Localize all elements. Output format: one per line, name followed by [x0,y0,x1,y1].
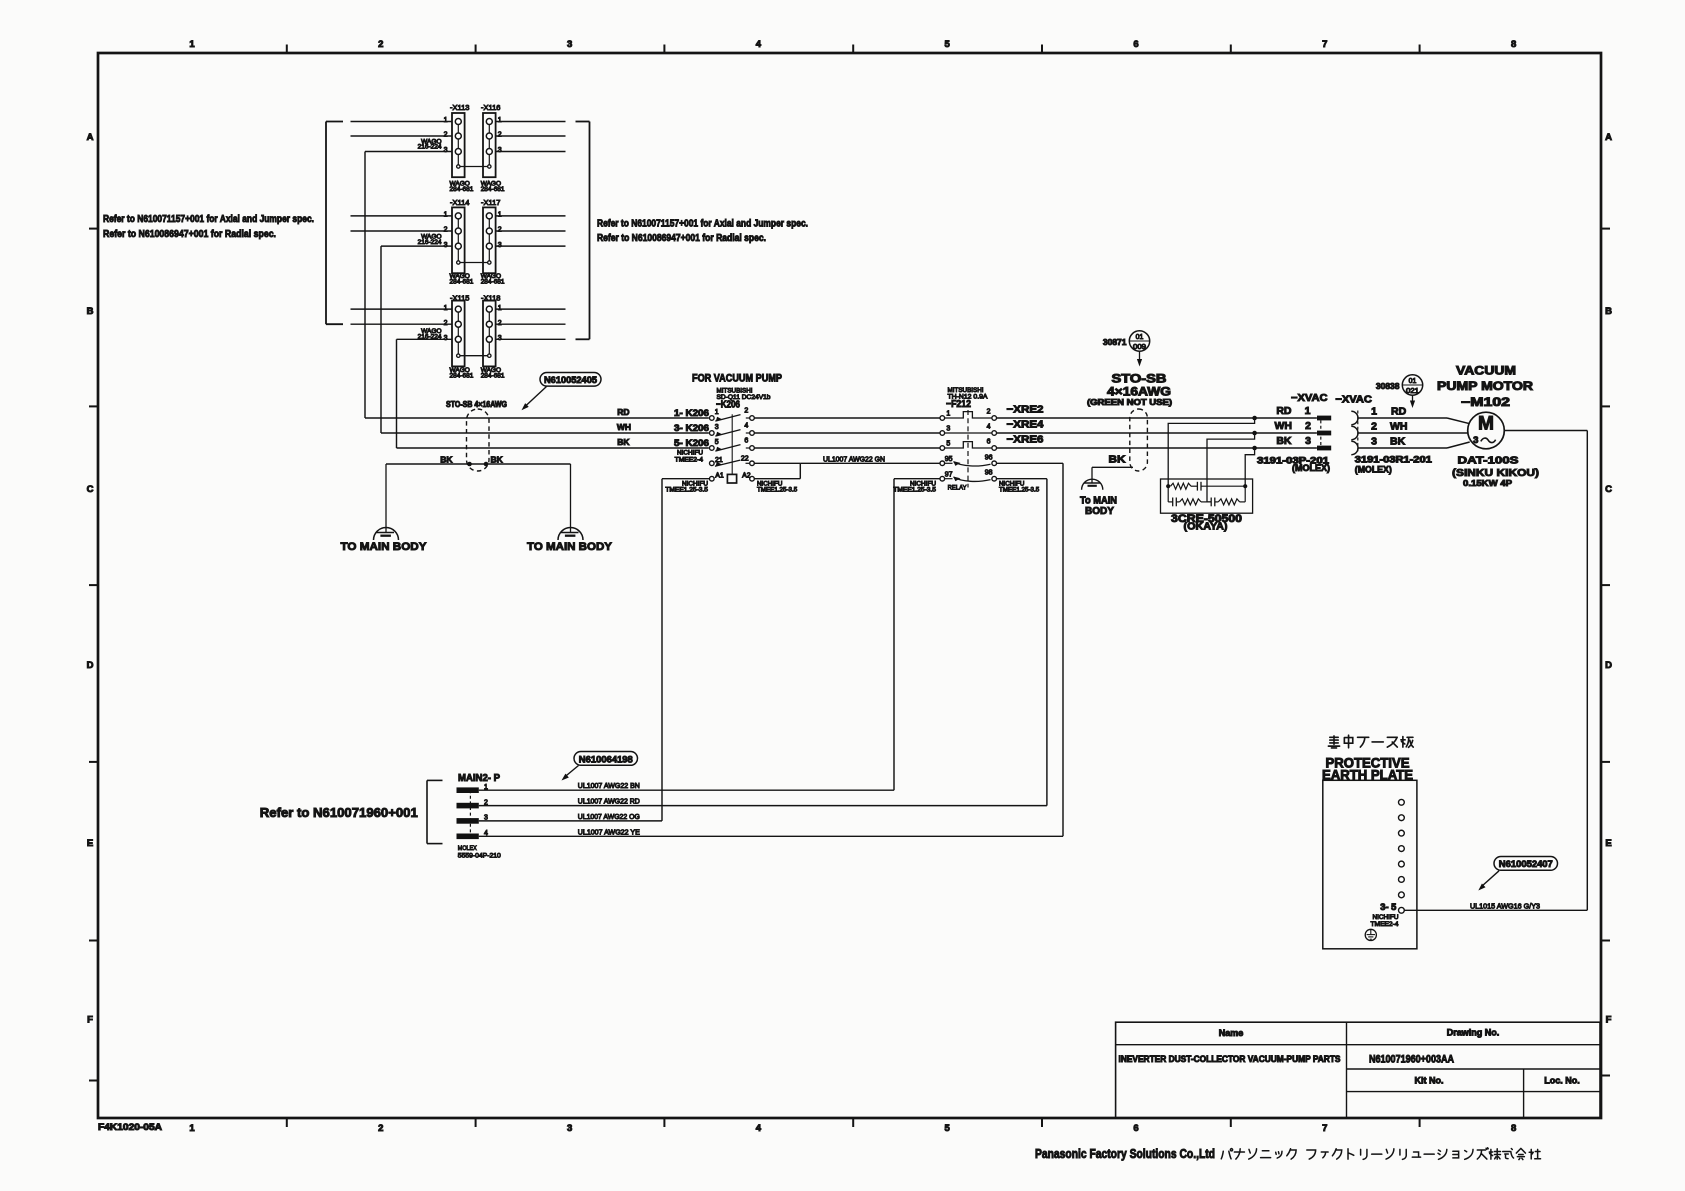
svg-text:-X113: -X113 [450,103,469,112]
svg-text:(GREEN NOT USE): (GREEN NOT USE) [1087,398,1172,407]
svg-text:284-681: 284-681 [450,278,474,285]
svg-text:1: 1 [715,409,719,416]
svg-text:UL1007 AWG22 OG: UL1007 AWG22 OG [578,812,640,821]
svg-text:NICHIFU: NICHIFU [1373,914,1399,921]
svg-text:2: 2 [444,132,448,139]
svg-text:2: 2 [444,320,448,327]
svg-text:284-681: 284-681 [481,278,505,285]
svg-text:216-224: 216-224 [418,239,442,246]
svg-text:BK: BK [617,437,630,447]
svg-text:Loc. No.: Loc. No. [1544,1076,1580,1086]
svg-text:4: 4 [756,39,762,50]
svg-text:6: 6 [987,439,991,446]
svg-text:284-681: 284-681 [481,372,505,379]
svg-text:2: 2 [987,409,991,416]
svg-text:3191-03R1-201: 3191-03R1-201 [1355,454,1432,464]
svg-text:N610052405: N610052405 [544,375,598,386]
svg-text:D: D [1605,660,1612,671]
svg-text:3: 3 [946,426,950,433]
svg-text:3: 3 [715,424,719,431]
svg-text:−F212: −F212 [946,399,971,410]
svg-text:21: 21 [715,457,723,464]
svg-text:RELAY: RELAY [948,485,967,492]
svg-text:5559-04P-210: 5559-04P-210 [458,852,501,859]
svg-text:N610064198: N610064198 [579,754,634,765]
svg-text:284-681: 284-681 [481,186,505,193]
svg-text:A: A [87,132,94,143]
svg-text:−M102: −M102 [1461,397,1510,409]
svg-text:WH: WH [1275,420,1293,432]
svg-text:-X118: -X118 [481,294,500,303]
svg-text:3: 3 [1371,435,1377,447]
svg-text:M: M [1478,414,1494,435]
svg-text:UL1007 AWG22 BN: UL1007 AWG22 BN [578,781,640,790]
svg-text:WH: WH [617,422,631,432]
svg-text:C: C [1605,484,1612,495]
svg-text:1: 1 [498,212,502,219]
svg-text:8: 8 [1511,39,1516,50]
svg-text:3: 3 [567,1123,572,1134]
svg-text:RD: RD [617,407,629,417]
svg-text:6: 6 [1133,1123,1138,1134]
svg-text:BODY: BODY [1085,506,1114,517]
svg-text:−XVAC: −XVAC [1335,394,1372,405]
svg-text:1: 1 [498,117,502,124]
svg-text:1: 1 [1305,405,1311,417]
svg-text:5: 5 [715,439,719,446]
svg-text:-X114: -X114 [450,198,469,207]
svg-text:3: 3 [567,39,572,50]
svg-text:96: 96 [985,454,993,461]
svg-text:Refer to N610086947+001 for Ra: Refer to N610086947+001 for Radial spec. [103,228,276,240]
svg-text:TMEE1.25-3.5: TMEE1.25-3.5 [665,486,708,493]
svg-text:UL1007 AWG22 GN: UL1007 AWG22 GN [823,455,885,464]
svg-text:UL1007 AWG22 RD: UL1007 AWG22 RD [578,797,640,806]
svg-text:DAT-100S: DAT-100S [1458,455,1519,467]
svg-text:3: 3 [498,335,502,342]
svg-text:3: 3 [444,147,448,154]
svg-text:−XVAC: −XVAC [1291,393,1328,404]
svg-text:216-224: 216-224 [418,144,442,151]
svg-text:284-681: 284-681 [450,186,474,193]
svg-text:EARTH PLATE: EARTH PLATE [1322,768,1413,783]
svg-text:−K206: −K206 [716,400,740,411]
svg-text:C: C [87,484,94,495]
svg-text:4: 4 [756,1123,762,1134]
svg-text:RD: RD [1276,405,1292,417]
svg-text:Refer to N610071157+001 for Ax: Refer to N610071157+001 for Axial and Ju… [103,213,314,225]
svg-text:FOR VACUUM PUMP: FOR VACUUM PUMP [692,373,782,385]
svg-text:2: 2 [498,320,502,327]
svg-text:5: 5 [945,1123,951,1134]
svg-text:2: 2 [378,1123,383,1134]
svg-text:STO-SB: STO-SB [1112,374,1167,386]
svg-text:021: 021 [1406,388,1419,395]
svg-text:TMEE2-4: TMEE2-4 [1371,921,1399,928]
svg-text:MAIN2- P: MAIN2- P [458,773,500,784]
svg-text:009: 009 [1133,344,1146,351]
svg-text:6: 6 [1133,39,1138,50]
svg-text:B: B [87,306,94,317]
svg-text:BK: BK [440,455,453,465]
svg-text:01: 01 [1409,378,1417,385]
svg-text:E: E [1605,838,1611,849]
svg-text:1: 1 [444,117,448,124]
svg-text:−XRE4: −XRE4 [1007,418,1044,430]
svg-text:PUMP MOTOR: PUMP MOTOR [1437,381,1534,393]
svg-text:TMEE1.25-3.5: TMEE1.25-3.5 [757,486,798,493]
svg-text:5: 5 [946,441,950,448]
svg-text:0.15KW 4P: 0.15KW 4P [1463,478,1512,488]
svg-text:E: E [87,838,93,849]
svg-text:1: 1 [444,305,448,312]
svg-text:3: 3 [1473,435,1478,446]
svg-text:1: 1 [946,411,950,418]
svg-text:2: 2 [744,407,748,414]
svg-text:TO MAIN BODY: TO MAIN BODY [341,541,427,553]
svg-text:2: 2 [498,132,502,139]
svg-text:Refer to N610071960+001: Refer to N610071960+001 [260,805,418,820]
svg-text:INEVERTER DUST-COLLECTOR VACUU: INEVERTER DUST-COLLECTOR VACUUM-PUMP PAR… [1119,1054,1341,1064]
svg-text:Refer to N610071157+001 for Ax: Refer to N610071157+001 for Axial and Ju… [597,218,808,230]
svg-text:97: 97 [945,471,953,478]
svg-text:F4K1020-05A: F4K1020-05A [98,1122,163,1132]
svg-text:B: B [1605,306,1612,317]
svg-text:3: 3 [444,335,448,342]
svg-text:95: 95 [945,456,953,463]
svg-text:6: 6 [744,437,748,444]
svg-text:−XRE6: −XRE6 [1007,433,1044,445]
svg-text:F: F [1606,1015,1612,1026]
svg-text:3- K206: 3- K206 [674,423,709,434]
svg-text:5: 5 [945,39,951,50]
svg-text:(MOLEX): (MOLEX) [1355,465,1392,475]
svg-text:A: A [1605,132,1612,143]
svg-text:7: 7 [1322,1123,1327,1134]
svg-text:4: 4 [987,424,991,431]
svg-text:5- K206: 5- K206 [674,438,709,449]
svg-text:UL1015 AWG16 G/Y3: UL1015 AWG16 G/Y3 [1470,902,1540,911]
svg-text:TMEE2-4: TMEE2-4 [675,456,704,463]
svg-text:4: 4 [744,422,748,429]
svg-text:22: 22 [741,455,749,462]
svg-text:BK: BK [1276,435,1292,447]
svg-text:Name: Name [1219,1028,1244,1038]
svg-text:BK: BK [1390,435,1406,447]
svg-text:N610052407: N610052407 [1499,859,1553,870]
svg-text:D: D [87,660,94,671]
svg-text:MOLEX: MOLEX [458,845,477,852]
svg-text:-X115: -X115 [450,294,469,303]
svg-text:UL1007 AWG22 YE: UL1007 AWG22 YE [578,827,640,836]
svg-text:TO MAIN BODY: TO MAIN BODY [527,541,612,553]
svg-text:Drawing No.: Drawing No. [1447,1028,1500,1038]
svg-text:N610071960+003AA: N610071960+003AA [1369,1054,1454,1066]
svg-text:WH: WH [1390,420,1408,432]
svg-text:1: 1 [498,305,502,312]
svg-text:1- K206: 1- K206 [674,408,709,419]
svg-text:BK: BK [1109,454,1126,466]
svg-text:TMEE1.25-3.5: TMEE1.25-3.5 [999,486,1040,493]
svg-text:1: 1 [189,39,195,50]
svg-text:BK: BK [491,455,504,465]
svg-text:3: 3 [498,242,502,249]
svg-text:VACUUM: VACUUM [1456,366,1516,378]
svg-text:RD: RD [1391,405,1407,417]
svg-text:TMEE1.25-3.5: TMEE1.25-3.5 [893,486,936,493]
svg-text:STO-SB 4×16AWG: STO-SB 4×16AWG [446,400,507,409]
svg-text:(OKAYA): (OKAYA) [1184,521,1228,532]
svg-text:Refer to N610086947+001 for Ra: Refer to N610086947+001 for Radial spec. [597,232,766,244]
svg-text:A2: A2 [742,473,751,480]
svg-text:01: 01 [1136,334,1144,341]
svg-text:3- 5: 3- 5 [1380,902,1396,912]
svg-text:1: 1 [444,212,448,219]
svg-text:F: F [87,1015,93,1026]
svg-text:3: 3 [1305,435,1311,447]
svg-text:4×16AWG: 4×16AWG [1107,387,1171,399]
svg-text:8: 8 [1511,1123,1516,1134]
svg-text:1: 1 [189,1123,195,1134]
svg-text:2: 2 [498,227,502,234]
svg-text:98: 98 [985,470,993,477]
svg-text:A1: A1 [715,473,724,480]
svg-text:-X116: -X116 [481,103,500,112]
svg-text:30871: 30871 [1103,337,1127,347]
svg-text:2: 2 [1371,420,1377,432]
svg-text:Panasonic Factory Solutions Co: Panasonic Factory Solutions Co.,Ltd [1035,1147,1215,1161]
svg-text:Kit No.: Kit No. [1415,1076,1444,1086]
svg-text:7: 7 [1322,39,1327,50]
svg-text:1: 1 [1371,405,1377,417]
svg-text:284-681: 284-681 [450,372,474,379]
svg-text:−XRE2: −XRE2 [1007,403,1044,415]
svg-text:3: 3 [498,147,502,154]
svg-text:3: 3 [444,242,448,249]
svg-text:30838: 30838 [1376,381,1400,391]
svg-text:2: 2 [378,39,383,50]
svg-text:2: 2 [444,227,448,234]
svg-text:(MOLEX): (MOLEX) [1292,463,1330,473]
svg-text:2: 2 [1305,420,1311,432]
svg-text:-X117: -X117 [481,198,500,207]
